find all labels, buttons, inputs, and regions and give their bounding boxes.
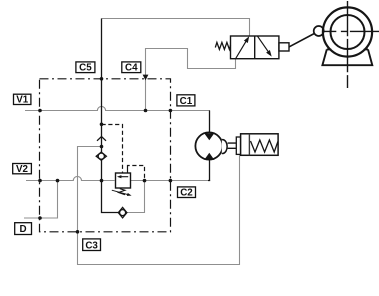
label C1 [177, 95, 195, 107]
wire: main black line from valve supply down through check valve [102, 19, 119, 213]
rod end plate [236, 137, 240, 154]
valve actuator push box [279, 43, 289, 51]
junction dot drain branch [100, 145, 104, 149]
junction dot D port [38, 216, 42, 220]
electric motor M1: inner circle [331, 15, 365, 49]
label V1 [14, 94, 31, 106]
svg-text:C4: C4 [125, 63, 138, 74]
junction dot C1 port [169, 109, 173, 113]
valve right square arrow (top-left to bottom-right) [258, 36, 272, 56]
label V2 [13, 164, 32, 176]
hydraulic motor M2: bottom triangle [204, 153, 214, 160]
svg-text:C2: C2 [180, 188, 193, 199]
pilot dashed line from relief valve top to C2 line tap [127, 168, 129, 174]
junction dot C4 line on V1 [144, 109, 148, 113]
electric motor M1: base trapezoid [322, 49, 372, 65]
svg-text:C3: C3 [85, 240, 98, 251]
cylinder piston [248, 134, 250, 156]
enclosure dash-dot boundary box [40, 79, 171, 232]
shaft coupling [222, 140, 227, 154]
junction dot C2 port [169, 179, 173, 183]
hydraulic motor M2: top triangle [204, 133, 214, 140]
mechanical lever link [289, 34, 314, 47]
svg-text:D: D [20, 224, 27, 235]
wire: riser from V1 line down to hydraulic motor top [209, 111, 211, 134]
wire: D branch from V2 line out of enclosure [24, 181, 58, 219]
hydraulic motor M2: circle [195, 132, 222, 159]
svg-text:C5: C5 [79, 63, 92, 74]
svg-text:C1: C1 [180, 96, 193, 107]
electric motor M1: outer circle [323, 7, 372, 56]
pilot dashed line from main line to relief valve top [102, 125, 123, 174]
junction dot pilot tap C2 [143, 179, 147, 183]
wire: valve bottom return line to C4 port [146, 49, 236, 111]
relief valve spring [119, 189, 126, 195]
wire: V2/C2 line right segment to motor riser [131, 180, 211, 182]
label C5 [76, 62, 95, 74]
svg-text:V2: V2 [16, 164, 29, 175]
electric motor M1: centerlines [323, 1, 379, 88]
valve return spring [215, 42, 230, 49]
cylinder spring [251, 140, 278, 152]
directional valve body (two squares) [231, 36, 279, 59]
arrowhead C4 flow direction (down) [143, 75, 149, 81]
junction dot main-V2 [100, 179, 104, 183]
svg-text:V1: V1 [16, 95, 29, 106]
wire: riser from hydraulic motor bottom to C2 line [208, 159, 210, 181]
label D [15, 223, 32, 235]
junction dot D branch [56, 179, 60, 183]
label C2 [178, 187, 196, 199]
junction dot C3 port [76, 230, 80, 234]
wire: pilot supply from main line to valve top port [102, 19, 250, 37]
label C4 [122, 62, 141, 74]
check valve CV2 (diamond with ball) on bottom run [118, 207, 127, 218]
check valve CV1 (diamond with ball) on main line [96, 152, 106, 160]
wire: bottom check valve run and riser up to C2 line [127, 181, 145, 213]
junction dot V2 boundary [38, 179, 42, 183]
junction dot pilot tap [100, 123, 104, 127]
piston rod lines [228, 143, 237, 148]
wire: drain line to C3 and cylinder (x=77 down, bottom run, riser to cylinder) [78, 147, 240, 265]
spring cylinder body [241, 134, 279, 156]
relief valve adjustment arrow [112, 190, 132, 196]
junction dot V1 boundary [38, 109, 42, 113]
flow chevron arrow on main line [97, 137, 106, 141]
junction dot C5 port [100, 77, 104, 81]
label C3 [83, 239, 101, 251]
relief valve body [116, 173, 131, 188]
wire: V2 line left segment (gray, hops over drain line) [26, 176, 115, 180]
lever pivot circle [314, 26, 324, 36]
valve left square arrow (bottom port to top port) [236, 36, 250, 58]
wire: V1 line (gray, hops over main line) [25, 106, 210, 110]
